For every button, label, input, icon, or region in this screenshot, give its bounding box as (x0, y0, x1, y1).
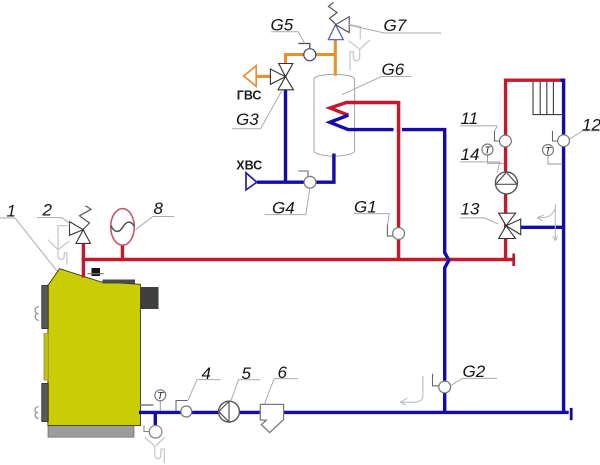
drain valve under boiler (144, 425, 162, 438)
radiator (533, 82, 563, 115)
svg-text:ГВС: ГВС (237, 89, 262, 103)
wire red end cap on main (512, 254, 515, 267)
leader + label 2 (37, 201, 70, 224)
leader + label 14 (460, 145, 500, 172)
valve G2 (433, 374, 451, 393)
svg-text:5: 5 (242, 364, 252, 383)
valve G1 (387, 224, 404, 239)
flow arrow near G2 (400, 376, 423, 405)
leader + label 8 (136, 199, 175, 230)
svg-text:G1: G1 (354, 197, 377, 216)
wire blue drain stub under boiler (154, 412, 157, 426)
svg-text:12: 12 (582, 115, 600, 134)
wire red boiler outlet vertical (82, 243, 85, 277)
boiler 1 (solid fuel boiler body) (35, 268, 159, 437)
valve 4 (176, 401, 192, 418)
pump G5 (299, 44, 316, 61)
svg-text:G7: G7 (384, 16, 407, 35)
3-way valve 13 (499, 213, 521, 238)
thermometer T-11 (482, 144, 504, 163)
arrow HVS (cold water in) (246, 173, 257, 190)
svg-text:G3: G3 (236, 110, 259, 129)
svg-text:ХВС: ХВС (236, 159, 262, 173)
wire blue coil outlet + return riser to G2 (330, 115, 449, 412)
wire orange DHW pipes (256, 40, 335, 77)
drain at valve 2 (48, 226, 70, 265)
leader + label 1 (0, 202, 57, 272)
3-way mixing valve G3 (270, 64, 293, 90)
svg-text:14: 14 (461, 145, 480, 164)
leader + label G7 (350, 16, 441, 35)
wire blue return bottom horizontal (139, 80, 571, 426)
valve G4 (298, 171, 316, 188)
leader + label G1 (353, 197, 389, 224)
wire red main horizontal (82, 258, 514, 261)
svg-text:6: 6 (278, 363, 288, 382)
leader + label 12 (570, 115, 600, 139)
arrow GVS (hot water out) (244, 66, 257, 86)
wire red tank coil feed (330, 101, 399, 260)
filter 6 (260, 404, 283, 432)
wire red branch to G1 down (397, 102, 400, 260)
svg-text:1: 1 (7, 202, 16, 221)
wire red radiator riser (506, 80, 562, 259)
flow arrow near valve 13 (537, 204, 558, 241)
wire red expansion tank stub (121, 244, 124, 260)
leader + label G5 (271, 15, 305, 43)
leader + label 13 (460, 200, 499, 225)
wire blue valve13 branch (513, 226, 564, 229)
pump 14 (495, 172, 517, 194)
wire red branch over blue (redraw crossing) (397, 127, 400, 132)
drain glyph under boiler (145, 438, 165, 464)
wire blue right return drop (561, 80, 564, 412)
valve 11 (495, 131, 512, 147)
wire blue cap end bottom right (570, 408, 573, 420)
expansion tank 8 (111, 209, 135, 246)
svg-text:G4: G4 (272, 198, 295, 217)
leader + label G4 (265, 189, 310, 218)
wire: red supply pipes (82, 80, 562, 277)
leader + label 6 (265, 363, 299, 404)
svg-text:8: 8 (154, 199, 164, 218)
svg-text:4: 4 (202, 364, 211, 383)
leader + label 4 (188, 364, 221, 401)
svg-text:2: 2 (42, 201, 53, 220)
svg-text:11: 11 (461, 109, 479, 128)
leader + label G2 (450, 362, 497, 386)
wire blue cold feed to tank bottom (257, 154, 334, 183)
svg-text:G6: G6 (382, 60, 405, 79)
svg-text:G5: G5 (271, 15, 294, 34)
wire blue G3 cold branch (284, 89, 287, 182)
drain at G7 (349, 25, 371, 71)
leader + label G6 (342, 60, 412, 95)
safety valve 2 (70, 206, 92, 244)
thermometer T-12 (543, 145, 562, 165)
svg-text:G2: G2 (463, 362, 486, 381)
valve 12 (553, 131, 570, 147)
leader + label G3 (232, 90, 282, 129)
thermometer T at boiler return (155, 390, 166, 411)
safety valve G7 (328, 2, 349, 40)
leader + label 5 (231, 364, 260, 401)
leader + label 11 (460, 109, 497, 131)
tank G6 (indirect water heater) (314, 74, 355, 156)
pump 5 (219, 401, 240, 422)
svg-text:13: 13 (461, 200, 480, 219)
